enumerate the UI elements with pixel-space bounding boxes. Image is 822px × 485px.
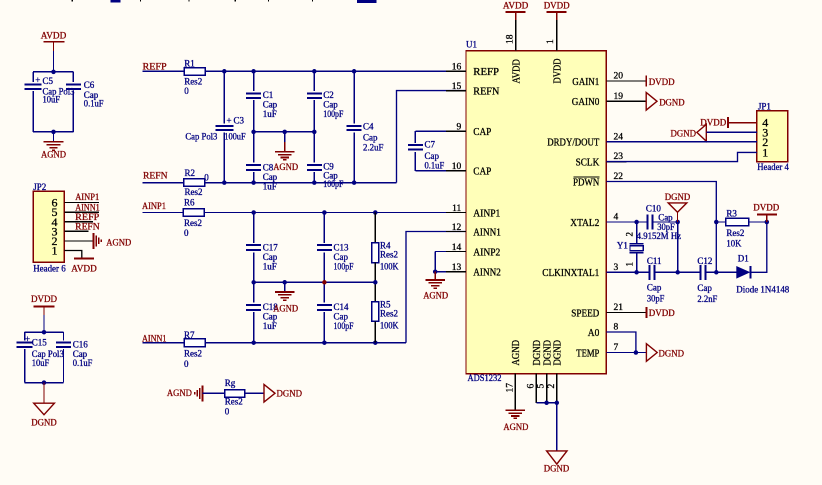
wire REFP rail [205, 70, 466, 72]
power DGND (pin 19) [646, 93, 657, 111]
svg-text:REFN: REFN [75, 223, 100, 233]
resistor R3 [716, 221, 725, 223]
capacitor C12 [700, 265, 702, 280]
svg-text:100pF: 100pF [323, 179, 343, 189]
svg-text:100K: 100K [380, 321, 399, 331]
svg-text:DGND: DGND [671, 129, 697, 139]
svg-text:2.2nF: 2.2nF [697, 294, 717, 304]
wire [142, 212, 183, 214]
svg-text:Cap: Cap [263, 252, 278, 262]
U1 pin 9 CAP [446, 130, 466, 132]
resistor R5 [374, 282, 376, 302]
capacitor C14 [323, 282, 325, 302]
svg-text:Cap: Cap [263, 172, 278, 182]
wire [25, 331, 64, 333]
svg-text:100uF: 100uF [224, 132, 245, 142]
node [251, 130, 256, 135]
svg-text:2.2uF: 2.2uF [363, 143, 384, 153]
node [251, 69, 256, 74]
svg-text:13: 13 [452, 263, 462, 273]
svg-text:GAIN1: GAIN1 [572, 77, 599, 88]
svg-text:C8: C8 [263, 162, 274, 172]
node [312, 69, 317, 74]
svg-text:C1: C1 [263, 90, 274, 100]
wire pin 10 [415, 170, 466, 172]
svg-text:1: 1 [52, 244, 58, 258]
svg-text:SPEED: SPEED [571, 308, 599, 319]
ground AGND (JP2 pin 2) [93, 233, 95, 249]
wire [706, 131, 757, 133]
svg-text:DVDD: DVDD [552, 59, 563, 84]
svg-text:GAIN0: GAIN0 [572, 97, 600, 108]
svg-text:Res2: Res2 [380, 250, 398, 260]
svg-text:DVDD: DVDD [753, 204, 779, 214]
svg-text:AVDD: AVDD [41, 32, 67, 42]
wire DGND link [677, 222, 679, 272]
wire [64, 240, 93, 242]
op-amp U1 ADS1232 body [466, 51, 606, 374]
svg-text:100pF: 100pF [334, 321, 354, 331]
node [312, 180, 317, 185]
svg-text:23: 23 [614, 152, 624, 162]
node [555, 401, 560, 406]
capacitor C7 [414, 131, 416, 143]
wire pin 23 SCLK [606, 152, 757, 161]
svg-text:1uF: 1uF [263, 261, 277, 271]
svg-text:Res2: Res2 [184, 349, 202, 359]
svg-text:0.1uF: 0.1uF [84, 99, 104, 109]
svg-text:0.1uF: 0.1uF [73, 358, 93, 368]
U1 pin 3 CLKINXTAL1 [606, 271, 626, 273]
diode D1 [736, 266, 750, 279]
wire XTAL1 rail [606, 271, 649, 273]
svg-text:+: + [227, 115, 232, 125]
U1 pin 8 A0 [606, 331, 626, 333]
svg-text:C12: C12 [697, 256, 712, 266]
svg-text:REFN: REFN [143, 171, 168, 181]
svg-text:9: 9 [457, 123, 462, 133]
svg-text:3: 3 [614, 263, 619, 273]
capacitor C3 [223, 71, 225, 123]
svg-text:AGND: AGND [167, 389, 192, 399]
svg-text:CAP: CAP [473, 127, 491, 138]
node [714, 220, 719, 225]
svg-text:1: 1 [624, 262, 634, 267]
wire [750, 222, 767, 272]
node [352, 180, 357, 185]
svg-text:1: 1 [546, 39, 556, 44]
wire [142, 70, 184, 72]
svg-text:7: 7 [614, 343, 619, 353]
wire [63, 332, 65, 340]
svg-text:6: 6 [526, 384, 536, 389]
U1 pin 12 AINN1 [446, 231, 466, 233]
svg-text:14: 14 [452, 243, 462, 253]
wire [556, 403, 558, 451]
wire mid rail 2 [254, 281, 376, 283]
U1 pin 22 PDWN [606, 181, 626, 183]
svg-text:DVDD: DVDD [649, 78, 675, 88]
wire [434, 252, 436, 272]
svg-text:C13: C13 [334, 242, 350, 252]
wire [32, 72, 34, 82]
svg-text:XTAL2: XTAL2 [570, 218, 599, 229]
svg-text:17: 17 [505, 383, 515, 393]
node [42, 330, 47, 335]
svg-text:11: 11 [452, 204, 461, 214]
svg-text:DGND: DGND [659, 98, 685, 108]
svg-text:AVDD: AVDD [71, 265, 97, 275]
power DGND (Rg) [264, 385, 275, 403]
svg-text:0: 0 [204, 172, 209, 182]
wire pin 19 [606, 100, 646, 102]
node [251, 280, 256, 285]
capacitor C16 [56, 342, 71, 344]
ground AGND (ref cap bank) [284, 132, 286, 142]
svg-text:REFP: REFP [473, 67, 499, 78]
svg-text:C3: C3 [234, 115, 245, 125]
U1 pin 15 REFN [446, 90, 466, 92]
wire AINP1 rail [204, 212, 466, 214]
capacitor C11 [648, 265, 650, 280]
svg-text:Y1: Y1 [617, 241, 628, 251]
wire [64, 230, 88, 232]
wire pin 13 [435, 271, 466, 273]
svg-text:SCLK: SCLK [576, 158, 600, 169]
node [675, 270, 680, 275]
svg-text:Cap Pol3: Cap Pol3 [185, 132, 217, 142]
svg-text:DRDY/DOUT: DRDY/DOUT [547, 138, 600, 149]
wire [43, 315, 45, 332]
svg-text:0: 0 [184, 86, 189, 96]
svg-text:Res2: Res2 [380, 309, 398, 319]
svg-text:100K: 100K [380, 262, 399, 272]
U1 pin 11 AINP1 [446, 212, 466, 214]
resistor R4 [374, 213, 376, 243]
U1 pin 14 AINP2 [446, 251, 466, 253]
wire mid rail [254, 131, 315, 133]
svg-text:10K: 10K [726, 238, 741, 248]
capacitor C18 [253, 282, 255, 302]
svg-text:C5: C5 [43, 76, 54, 86]
svg-text:C4: C4 [363, 122, 374, 132]
svg-text:AGND: AGND [273, 163, 298, 173]
svg-text:AINP2: AINP2 [473, 247, 500, 258]
svg-text:DGND: DGND [544, 465, 570, 475]
node [282, 280, 287, 285]
svg-text:12: 12 [452, 223, 462, 233]
svg-text:Cap: Cap [334, 252, 349, 262]
U1 pin 2 DGND (bottom) [556, 374, 558, 403]
wire REFN to pin 15 [397, 91, 467, 183]
svg-text:Res2: Res2 [184, 218, 202, 228]
capacitor C9 [313, 132, 315, 163]
svg-text:20: 20 [614, 72, 624, 82]
capacitor C5 [25, 83, 42, 85]
resistor R7 [184, 339, 205, 347]
svg-text:15: 15 [452, 82, 462, 92]
svg-text:REFP: REFP [75, 213, 99, 223]
svg-text:C7: C7 [425, 140, 436, 150]
svg-text:R3: R3 [726, 208, 737, 218]
wire REFN rail [205, 182, 397, 184]
node [222, 69, 227, 74]
wire pin 21 SPEED [606, 311, 646, 313]
svg-text:1uF: 1uF [263, 181, 277, 191]
svg-text:22: 22 [614, 172, 624, 182]
svg-text:4: 4 [614, 213, 619, 223]
svg-text:0: 0 [184, 228, 189, 238]
wire [25, 382, 64, 384]
node [634, 270, 639, 275]
wire DGND bus [536, 402, 557, 404]
wire pin 14 [435, 251, 466, 253]
svg-text:A0: A0 [588, 328, 600, 339]
ground AGND (input cap bank) [284, 282, 286, 292]
wire [64, 211, 99, 213]
svg-text:2: 2 [547, 384, 557, 389]
wire [72, 72, 74, 82]
svg-text:AGND: AGND [41, 151, 66, 161]
svg-text:0: 0 [184, 359, 189, 369]
svg-text:Res2: Res2 [726, 228, 744, 238]
svg-text:5: 5 [537, 384, 547, 389]
power DVDD (pin 1) [547, 11, 567, 13]
svg-text:C14: C14 [334, 302, 350, 312]
svg-text:AGND: AGND [273, 304, 298, 314]
node [433, 269, 438, 274]
svg-text:AINN1: AINN1 [473, 227, 501, 238]
node [714, 270, 719, 275]
svg-text:JP1: JP1 [758, 101, 771, 111]
svg-text:C6: C6 [84, 80, 95, 90]
wire XTAL2 rail [606, 221, 647, 223]
capacitor C15 [17, 342, 33, 344]
svg-text:Cap: Cap [363, 132, 378, 142]
svg-text:+: + [35, 75, 40, 85]
U1 pin 16 REFP [446, 70, 466, 72]
svg-text:Cap: Cap [425, 151, 440, 161]
wire [203, 392, 225, 394]
wire [33, 71, 73, 73]
svg-text:AINP1: AINP1 [142, 202, 166, 212]
svg-text:AVDD: AVDD [503, 2, 529, 12]
svg-text:Header 4: Header 4 [757, 162, 789, 172]
svg-text:Cap: Cap [334, 312, 349, 322]
capacitor C6 [66, 83, 81, 85]
svg-text:2: 2 [624, 232, 634, 237]
svg-text:AINN1: AINN1 [75, 204, 100, 214]
svg-text:U1: U1 [466, 39, 477, 49]
power DGND (pin 7) [646, 344, 657, 362]
U1 pin 20 GAIN1 [606, 80, 626, 82]
svg-text:R1: R1 [184, 58, 195, 68]
svg-text:Rg: Rg [225, 378, 236, 388]
U1 pin 24 DRDY/DOUT [606, 141, 626, 143]
svg-text:AVDD: AVDD [511, 59, 522, 83]
svg-text:10uF: 10uF [43, 95, 61, 105]
svg-text:30pF: 30pF [647, 294, 665, 304]
U1 pin 7 TEMP [606, 352, 626, 354]
capacitor C4 [353, 71, 355, 123]
wire pin 9 [415, 130, 466, 132]
capacitor C8 [253, 132, 255, 163]
wire AINN1 to pin 12 [406, 232, 466, 343]
svg-text:Cap: Cap [697, 283, 712, 293]
ground AGND (top-left) [53, 132, 55, 142]
svg-text:24: 24 [614, 132, 624, 142]
svg-text:DGND: DGND [665, 193, 691, 203]
wire [64, 251, 81, 259]
svg-text:AINP1: AINP1 [473, 208, 500, 219]
svg-text:C15: C15 [32, 337, 48, 347]
wire pin 7 TEMP [606, 352, 646, 354]
ground AGND (pin 17) [505, 409, 525, 411]
power DVDD (R3) [757, 214, 777, 216]
svg-text:AGND: AGND [511, 340, 522, 366]
svg-text:R7: R7 [184, 330, 195, 340]
wire pin 22 PDWN [606, 182, 716, 273]
U1 pin 10 CAP [446, 170, 466, 172]
U1 pin 1 DVDD (top) [556, 20, 558, 51]
svg-text:D1: D1 [738, 253, 749, 263]
svg-text:C17: C17 [263, 242, 279, 252]
svg-text:AINP1: AINP1 [75, 193, 99, 203]
svg-text:AGND: AGND [423, 292, 448, 302]
resistor R2 [184, 179, 205, 187]
node [51, 70, 56, 75]
svg-text:4.9152M Hz: 4.9152M Hz [637, 231, 682, 241]
U1 pin 23 SCLK [606, 161, 626, 163]
svg-text:Res2: Res2 [225, 396, 243, 406]
wire [728, 122, 757, 124]
svg-text:100pF: 100pF [334, 261, 354, 271]
svg-text:DVDD: DVDD [544, 2, 570, 12]
node [251, 340, 256, 345]
U1 pin 5 DGND (bottom) [546, 374, 548, 403]
svg-text:Cap: Cap [658, 213, 673, 223]
svg-text:R2: R2 [185, 168, 196, 178]
svg-text:100pF: 100pF [323, 109, 343, 119]
node [282, 130, 287, 135]
capacitor C1 [253, 71, 255, 91]
svg-text:1uF: 1uF [263, 321, 277, 331]
power AVDD (JP2 pin 1) [74, 257, 94, 259]
svg-text:1: 1 [762, 145, 768, 159]
svg-text:DGND: DGND [31, 418, 57, 428]
svg-text:10uF: 10uF [32, 358, 50, 368]
capacitor C2 [313, 71, 315, 91]
U1 pin 19 GAIN0 [606, 100, 626, 102]
crystal Y1 [636, 222, 638, 244]
U1 pin 18 AVDD (top) [515, 20, 517, 51]
svg-text:AINN2: AINN2 [473, 268, 501, 279]
svg-text:REFN: REFN [473, 87, 500, 98]
svg-text:Res2: Res2 [185, 187, 203, 197]
svg-text:10: 10 [452, 162, 462, 172]
svg-text:Cap: Cap [323, 99, 338, 109]
svg-text:DVDD: DVDD [700, 119, 726, 129]
svg-text:AGND: AGND [503, 423, 528, 433]
resistor R6 [183, 209, 204, 217]
wire [53, 51, 55, 72]
svg-text:+: + [25, 334, 30, 344]
node [51, 130, 56, 135]
node [373, 210, 378, 215]
clipped title text remnants at top edge [72, 0, 73, 2]
svg-text:8: 8 [614, 323, 619, 333]
node [251, 180, 256, 185]
wire AINN1 rail [206, 342, 406, 344]
svg-text:C2: C2 [323, 90, 334, 100]
svg-text:DVDD: DVDD [649, 309, 675, 319]
node [373, 340, 378, 345]
wire pin 8 A0 [606, 332, 636, 353]
svg-text:0.1uF: 0.1uF [425, 160, 445, 170]
node [544, 401, 549, 406]
power DVDD (pin 20) [645, 76, 647, 87]
wire [24, 332, 26, 340]
wire [64, 221, 93, 223]
node [42, 380, 47, 385]
svg-text:0: 0 [225, 406, 230, 416]
wire pin 24 DRDY/DOUT [606, 141, 757, 143]
node [322, 340, 327, 345]
svg-text:Header 6: Header 6 [33, 264, 66, 274]
capacitor C10 [646, 215, 648, 230]
svg-text:R6: R6 [184, 197, 195, 207]
node [373, 280, 378, 285]
junction (red) [322, 280, 327, 285]
svg-text:19: 19 [614, 92, 624, 102]
ground DGND (left) [43, 383, 45, 404]
svg-text:Cap: Cap [647, 283, 662, 293]
U1 pin 21 SPEED [606, 311, 626, 313]
node [634, 350, 639, 355]
power AVDD (pin 18) [506, 11, 526, 13]
node [312, 130, 317, 135]
wire [33, 131, 73, 133]
svg-text:Cap: Cap [263, 99, 278, 109]
svg-text:16: 16 [452, 63, 462, 73]
U1 pin 4 XTAL2 [606, 221, 626, 223]
power DVDD (pin 21) [645, 307, 647, 318]
U1 pin 6 DGND (bottom) [535, 374, 537, 403]
svg-text:JP2: JP2 [33, 182, 46, 192]
svg-text:ADS1232: ADS1232 [468, 373, 502, 383]
power DGND (bottom) [547, 451, 567, 464]
svg-text:TEMP: TEMP [576, 348, 599, 359]
connector JP1 [757, 111, 788, 162]
svg-text:C11: C11 [647, 256, 662, 266]
svg-text:PDWN: PDWN [573, 177, 600, 188]
node [222, 180, 227, 185]
wire [245, 392, 264, 394]
svg-text:DGND: DGND [277, 389, 303, 399]
svg-text:1uF: 1uF [263, 109, 277, 119]
wire [64, 202, 99, 204]
capacitor C17 [253, 213, 255, 243]
svg-text:DGND: DGND [553, 340, 564, 366]
wire [142, 182, 184, 184]
resistor Rg [225, 390, 245, 398]
node [322, 210, 327, 215]
node [634, 220, 639, 225]
svg-text:21: 21 [614, 303, 624, 313]
svg-text:Diode 1N4148: Diode 1N4148 [736, 284, 789, 294]
wire [142, 342, 183, 344]
svg-text:DVDD: DVDD [31, 295, 57, 305]
